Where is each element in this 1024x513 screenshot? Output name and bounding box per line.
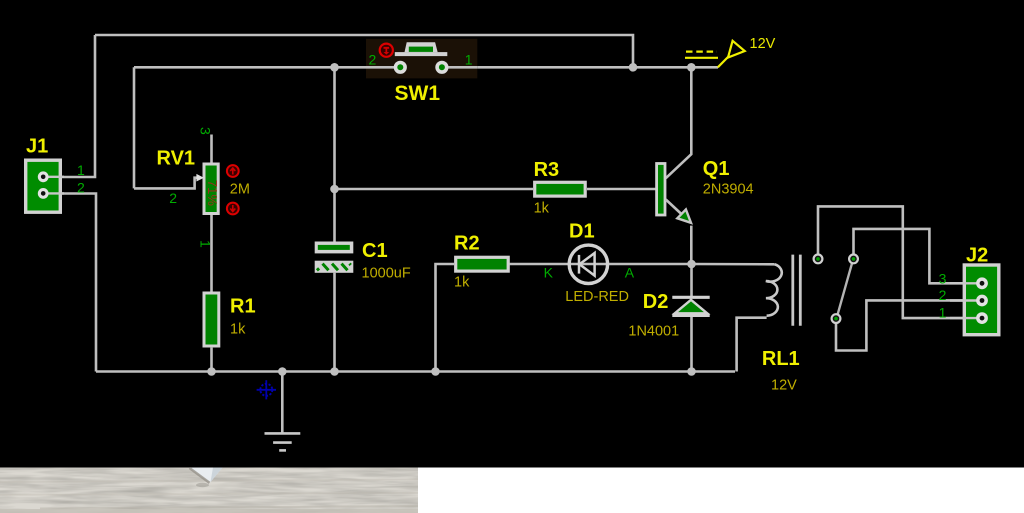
svg-text:2: 2 bbox=[169, 190, 177, 206]
svg-text:1k: 1k bbox=[454, 275, 470, 291]
svg-text:1: 1 bbox=[198, 240, 214, 248]
resistor R1 bbox=[204, 293, 219, 346]
svg-text:D2: D2 bbox=[643, 291, 669, 313]
wire bottom ground bus bbox=[96, 370, 735, 373]
svg-text:1N4001: 1N4001 bbox=[628, 324, 679, 340]
junction R2 branch bbox=[431, 367, 440, 376]
diode D2 bbox=[672, 297, 709, 315]
svg-text:SW1: SW1 bbox=[395, 82, 441, 105]
wire R1 to ground bus bbox=[210, 348, 213, 372]
wire left vertical J1 pin1 to top bus bbox=[62, 35, 95, 177]
svg-text:Q1: Q1 bbox=[703, 158, 730, 180]
svg-text:A: A bbox=[625, 265, 635, 281]
svg-text:12V: 12V bbox=[750, 36, 776, 52]
svg-text:3: 3 bbox=[939, 271, 947, 287]
SW1 toggle icon bbox=[380, 44, 393, 57]
svg-text:1: 1 bbox=[77, 162, 85, 178]
wire Q1 emitter to node bbox=[690, 226, 693, 264]
wire relay pivot to J2 pin2 bbox=[836, 300, 966, 350]
connector J2 bbox=[950, 265, 999, 335]
wire D2 bottom to ground bus bbox=[690, 315, 693, 371]
svg-text:LED-RED: LED-RED bbox=[565, 289, 629, 305]
wire R2 left to ground bus bbox=[436, 264, 455, 372]
wire J1 pin2 down to bottom bus bbox=[62, 194, 96, 372]
svg-text:J1: J1 bbox=[26, 136, 48, 158]
svg-text:K: K bbox=[544, 265, 554, 281]
svg-text:1: 1 bbox=[939, 305, 947, 321]
ground symbol bbox=[265, 433, 301, 450]
wire relay throw to J2 pin3 bbox=[854, 229, 967, 283]
wire second bus left segment to SW1 bbox=[134, 66, 400, 69]
wire RV1 pin1 to R1 bbox=[210, 215, 213, 292]
svg-text:2: 2 bbox=[77, 179, 85, 195]
junction D2 bottom bbox=[687, 367, 696, 376]
origin marker (blue crosshair) bbox=[257, 380, 276, 399]
svg-text:RL1: RL1 bbox=[762, 348, 800, 370]
junction C1 bottom bbox=[330, 367, 339, 376]
wire Q1 collector bbox=[666, 67, 692, 178]
wire emitter node to relay coil bbox=[692, 263, 775, 266]
junction R1 bottom bbox=[207, 367, 216, 376]
wire second bus right segment from SW1 to 12V node bbox=[442, 66, 718, 69]
wire relay coil return bbox=[737, 318, 767, 372]
resistor R2 bbox=[456, 257, 509, 271]
wire RV1 pin3 stub bbox=[210, 135, 213, 163]
svg-text:R3: R3 bbox=[534, 159, 560, 181]
svg-text:C1: C1 bbox=[362, 240, 388, 262]
RV1 up adjust icon bbox=[227, 165, 239, 177]
relay RL1 coil bbox=[766, 255, 800, 326]
svg-text:1k: 1k bbox=[534, 201, 550, 217]
junction emitter node bbox=[687, 260, 696, 269]
LED D1 bbox=[569, 245, 607, 283]
svg-text:2N3904: 2N3904 bbox=[703, 182, 754, 198]
capacitor C1 bbox=[315, 242, 354, 273]
svg-text:1k: 1k bbox=[230, 322, 246, 338]
svg-text:J2: J2 bbox=[966, 245, 988, 267]
switch SW1 bbox=[366, 39, 477, 79]
wire R2 through D1 to emitter node bbox=[510, 263, 692, 266]
svg-text:R1: R1 bbox=[230, 296, 256, 318]
wire R3 to Q1 base bbox=[587, 188, 656, 191]
relay RL1 contact bbox=[814, 255, 858, 324]
svg-text:RV1: RV1 bbox=[157, 148, 196, 170]
svg-text:D1: D1 bbox=[569, 221, 595, 243]
svg-text:2: 2 bbox=[939, 287, 947, 303]
resistor R3 bbox=[535, 182, 586, 196]
junction base node bbox=[330, 185, 339, 194]
wire vertical node C down to C1 bbox=[333, 67, 336, 241]
wire relay common to J2 pin1 bbox=[818, 206, 966, 318]
svg-text:R2: R2 bbox=[454, 233, 480, 255]
wire RV1 wiper feed bbox=[134, 178, 198, 189]
wire base node to R3 bbox=[335, 188, 534, 191]
svg-text:1: 1 bbox=[465, 52, 473, 68]
wire D2 top bbox=[690, 264, 693, 297]
transistor Q1 bbox=[657, 164, 691, 223]
svg-text:1000uF: 1000uF bbox=[362, 266, 411, 282]
white card corner in photo bbox=[189, 468, 223, 483]
wire vertical from second bus down to RV1 wiper bbox=[133, 67, 136, 188]
white page area bottom right bbox=[0, 468, 1024, 513]
RV1 down adjust icon bbox=[227, 203, 239, 215]
wire top bus bbox=[95, 35, 633, 67]
junction node A (second bus / C1 branch) bbox=[330, 63, 339, 72]
junction ground stem bbox=[278, 367, 287, 376]
svg-text:12V: 12V bbox=[771, 378, 797, 394]
svg-text:2M: 2M bbox=[230, 182, 250, 198]
wire ground stem bbox=[281, 372, 284, 433]
connector J1 bbox=[26, 160, 64, 212]
power flag 12V bbox=[685, 41, 745, 68]
junction node 12V / collector bbox=[687, 63, 696, 72]
svg-text:2: 2 bbox=[369, 52, 377, 68]
junction node B (top bus drop) bbox=[629, 63, 638, 72]
svg-text:71%: 71% bbox=[205, 180, 220, 206]
svg-text:3: 3 bbox=[198, 127, 214, 135]
wire C1 bottom to ground bus bbox=[333, 273, 336, 372]
potentiometer RV1 bbox=[196, 164, 218, 214]
